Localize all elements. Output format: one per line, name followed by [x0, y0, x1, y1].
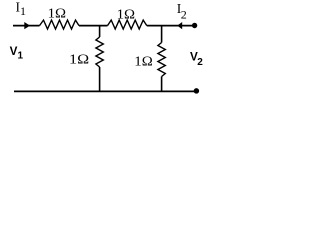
svg-text:2: 2 [197, 57, 203, 68]
svg-text:1Ω: 1Ω [117, 7, 135, 22]
svg-text:1Ω: 1Ω [69, 53, 89, 67]
svg-text:1: 1 [20, 4, 26, 18]
svg-text:1Ω: 1Ω [48, 6, 66, 21]
svg-text:1: 1 [18, 50, 24, 61]
svg-text:V: V [10, 45, 18, 58]
svg-text:1Ω: 1Ω [134, 54, 152, 69]
svg-text:2: 2 [181, 8, 187, 22]
